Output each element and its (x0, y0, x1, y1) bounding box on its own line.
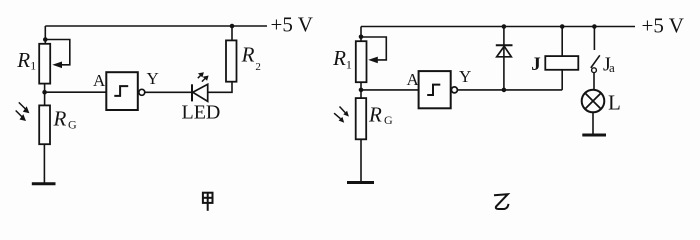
svg-text:G: G (384, 113, 393, 127)
node: wiper junction dot (left R1 top) (43, 37, 48, 42)
node: dot at rail switch branch (592, 24, 597, 29)
wire: gate output to coil branch (457, 89, 562, 91)
wire: switch to lamp (593, 73, 595, 90)
LED triangle (193, 84, 208, 101)
wire: switch branch from rail (593, 27, 595, 51)
photoresistor RG (right) body (356, 98, 367, 139)
wire: lamp to ground (592, 112, 594, 135)
svg-text:R: R (332, 46, 346, 70)
svg-text:R: R (241, 43, 255, 67)
svg-text:Y: Y (459, 67, 471, 86)
wire: rail down to R1 top (44, 26, 46, 44)
label L (608, 90, 621, 114)
node: rail dot at R2 branch (230, 24, 235, 29)
photoresistor RG (left) body (39, 105, 50, 144)
label Y (right) (459, 67, 471, 86)
ground (right, under RG) (347, 181, 374, 184)
svg-text:R: R (53, 107, 67, 131)
light arrows onto RG (left) (16, 102, 30, 121)
label +5 V (left) (271, 13, 313, 37)
node: signal junction dot (right) (359, 88, 364, 93)
wire: rail down to R1 top (right) (360, 27, 362, 42)
LED emission arrows (198, 72, 209, 81)
node: dot at rail coil branch (560, 24, 565, 29)
svg-text:Y: Y (147, 69, 159, 88)
svg-text:LED: LED (182, 102, 221, 124)
svg-text:R: R (368, 102, 382, 126)
hysteresis symbol (right) (427, 85, 440, 95)
wire: R1 bottom to RG top (right) (360, 82, 362, 98)
wire: R2 top to rail (231, 26, 233, 40)
resistor R2 body (226, 40, 237, 81)
resistor R1 (left) body (39, 44, 50, 84)
svg-text:1: 1 (346, 57, 352, 71)
svg-text:R: R (16, 48, 30, 72)
wire: LED anode to R2 (208, 82, 232, 93)
wire: gate output to LED (left) (145, 91, 192, 93)
switch Ja contact circle (592, 68, 597, 73)
label RG (left) (53, 107, 78, 132)
schmitt trigger gate U2 (right) box (419, 71, 451, 108)
label LED (182, 102, 221, 124)
label R1 (right) (332, 46, 352, 72)
wire: coil bottom to signal wire (561, 70, 563, 90)
svg-text:a: a (609, 60, 615, 75)
label J (coil) (531, 54, 541, 75)
label Ja (603, 54, 615, 76)
switch Ja blade (591, 55, 600, 68)
wire: RG bottom to ground (right) (360, 139, 362, 182)
label R1 (left) (16, 48, 36, 73)
label A (left) (93, 71, 106, 90)
node: signal junction dot (left) (42, 90, 47, 95)
diode D1 (flyback) (496, 45, 513, 57)
node: wiper junction dot (right R1 top) (359, 35, 364, 40)
node: dot at diode bottom junction (502, 88, 507, 93)
schmitt trigger gate U1 (left) box (106, 72, 138, 110)
label RG (right) (368, 102, 393, 127)
svg-text:2: 2 (255, 61, 261, 73)
node: dot at rail diode branch (502, 24, 507, 29)
wire: coil top to rail (561, 27, 563, 57)
hysteresis symbol (left) (114, 86, 128, 96)
ground (left) (32, 182, 56, 185)
wire: right +5V rail (361, 26, 635, 28)
label R2 (241, 43, 261, 73)
wire: diode branch vertical (503, 27, 505, 90)
wire: R1 wiper arm (left) (45, 40, 70, 69)
label jia (CJK) (203, 193, 213, 211)
wire: signal to gate input (right) (361, 89, 419, 91)
label A (right) (407, 70, 420, 89)
wire: R1 bottom to RG top (44, 84, 46, 106)
svg-text:A: A (93, 71, 106, 90)
label +5 V (right) (642, 14, 684, 38)
svg-text:1: 1 (30, 59, 36, 73)
label Y (left) (147, 69, 159, 88)
svg-text:A: A (407, 70, 420, 89)
wire: RG bottom to ground (left) (43, 144, 45, 184)
svg-text:+5 V: +5 V (642, 14, 684, 38)
svg-text:+5 V: +5 V (271, 13, 313, 37)
svg-text:L: L (608, 90, 621, 114)
label yi (CJK) (494, 194, 509, 209)
wire: signal to gate input (left) (45, 91, 107, 93)
light arrows onto RG (right) (334, 107, 349, 123)
wire: left +5V rail (45, 25, 267, 27)
output bubble (left) (139, 89, 145, 95)
ground (right, under lamp) (582, 134, 606, 137)
svg-text:G: G (68, 118, 77, 132)
LED cathode bar (191, 84, 193, 101)
relay coil J body (545, 56, 578, 70)
wire: R1 wiper arm (right) (361, 37, 386, 63)
output bubble (right) (451, 87, 457, 93)
lamp L (582, 90, 605, 113)
resistor R1 (right) body (356, 41, 367, 82)
svg-text:J: J (531, 54, 541, 75)
